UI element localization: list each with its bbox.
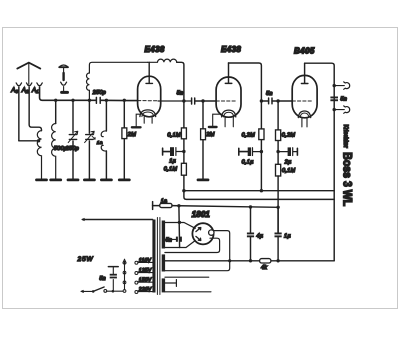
- svg-text:B405: B405: [294, 47, 315, 56]
- svg-text:220V: 220V: [138, 287, 152, 293]
- svg-text:25W: 25W: [77, 256, 94, 263]
- junction: [54, 99, 57, 102]
- ground L1: [37, 178, 47, 181]
- anode electrodes: [196, 228, 201, 232]
- svg-text:1a: 1a: [161, 198, 168, 204]
- junction coil tap: [37, 139, 40, 142]
- terminal A2: [26, 83, 31, 86]
- resistor 4k: [260, 259, 271, 263]
- capacitor 0,1u: [239, 148, 248, 155]
- svg-text:250p: 250p: [65, 146, 79, 152]
- capacitor 5n (4): [165, 238, 176, 240]
- junction: [88, 99, 91, 102]
- V1 grid line dashes: [138, 100, 158, 102]
- V1 anode top cap: [146, 62, 153, 83]
- ground 500p: [68, 178, 78, 181]
- svg-text:250p: 250p: [92, 90, 106, 96]
- svg-text:4k: 4k: [261, 265, 267, 271]
- terminal A3: [16, 83, 21, 86]
- series capacitor 250p: [96, 97, 100, 103]
- svg-text:A2: A2: [21, 87, 29, 94]
- mains switch: [81, 290, 93, 292]
- svg-text:0,1M: 0,1M: [164, 167, 178, 173]
- ground L2: [51, 178, 61, 181]
- secondary seg3 bar: [162, 278, 165, 292]
- mains line top: [82, 219, 152, 221]
- wire V1 to coupling: [158, 100, 192, 102]
- secondary seg2 bar: [162, 254, 165, 271]
- resistor 0,2M grid V3: [277, 101, 279, 164]
- seg3 bottom lead: [165, 291, 211, 293]
- mains fuse terminal: [152, 202, 154, 210]
- V3 anode wire to output: [305, 63, 335, 261]
- ground hooks: [101, 178, 111, 181]
- wire A3 tap to coil: [19, 140, 38, 142]
- capacitor 2u: [278, 151, 287, 153]
- svg-text:2µ: 2µ: [284, 159, 292, 165]
- svg-text:0,2M: 0,2M: [282, 133, 296, 139]
- svg-text:4µ: 4µ: [256, 233, 263, 239]
- svg-text:A3: A3: [10, 87, 18, 94]
- tap 110V: [135, 261, 138, 264]
- tap 220V: [135, 291, 138, 294]
- svg-text:110V: 110V: [139, 258, 152, 264]
- V2 filament: [222, 110, 236, 117]
- wire bus to L2: [55, 100, 57, 123]
- wave switch hooks: [105, 100, 107, 131]
- tube V1 E438 envelope: [138, 76, 161, 117]
- secondary coil L2: [52, 124, 56, 179]
- antenna coil L1: [37, 131, 41, 179]
- V3 grid dashes: [292, 100, 312, 102]
- svg-text:E438: E438: [145, 45, 165, 54]
- seg3 centre tap: [165, 280, 177, 287]
- speaker jack bottom: [333, 108, 336, 111]
- svg-text:2M: 2M: [205, 132, 215, 138]
- wire bus to C 250p var: [88, 100, 90, 178]
- svg-text:5n: 5n: [99, 276, 106, 282]
- svg-text:0,1M: 0,1M: [282, 168, 296, 174]
- svg-text:Boss 3 WL: Boss 3 WL: [341, 152, 353, 206]
- svg-text:150V: 150V: [139, 278, 152, 284]
- svg-text:5n: 5n: [166, 238, 173, 244]
- terminal A1: [37, 83, 42, 86]
- secondary HV bar: [162, 221, 165, 249]
- voltage selector: [124, 262, 126, 290]
- svg-text:1801: 1801: [192, 210, 211, 219]
- antenna: [17, 63, 40, 85]
- capacitor 5n (1): [192, 98, 195, 104]
- svg-text:E438: E438: [221, 45, 241, 54]
- fuse 1a: [153, 205, 160, 207]
- rectifier 1801 bulb: [192, 223, 213, 244]
- svg-text:5n: 5n: [266, 91, 273, 97]
- V1 cathode to chassis: [136, 114, 140, 127]
- svg-text:1a: 1a: [97, 140, 103, 146]
- tube V2 E438 envelope: [216, 77, 241, 117]
- svg-text:A1: A1: [31, 87, 39, 94]
- junction grid leak V2: [201, 99, 204, 102]
- HV bottom funnel: [165, 241, 195, 248]
- ground 250p: [84, 178, 94, 181]
- resistor 0,2M anode V2: [260, 101, 262, 191]
- feedback coil L3: [86, 62, 147, 100]
- svg-text:0,1µ: 0,1µ: [242, 159, 254, 165]
- speaker jack top: [333, 84, 336, 87]
- svg-text:5n: 5n: [177, 91, 184, 97]
- junction: [71, 99, 74, 102]
- V3 anode top cap: [301, 63, 308, 83]
- capacitor 1u (2): [277, 207, 279, 260]
- resistor 0,1M (3): [276, 164, 281, 176]
- capacitor 5n (2): [269, 98, 272, 104]
- transformer core: [157, 218, 160, 295]
- HT bus H2: [184, 191, 334, 200]
- V3 filament: [298, 111, 310, 118]
- HV top funnel: [165, 223, 195, 229]
- tube V3 B405 envelope: [292, 75, 317, 117]
- variable capacitor 250p: [85, 131, 95, 142]
- ground 2M (2): [198, 178, 208, 181]
- tap 125V: [135, 272, 138, 275]
- wire bus to C 500p: [72, 100, 74, 178]
- filament wire upper: [165, 231, 230, 271]
- junction choke to grid line: [182, 99, 185, 102]
- ground 2M: [119, 178, 129, 181]
- svg-text:Krischker: Krischker: [342, 125, 349, 149]
- transformer primary bar: [152, 220, 155, 293]
- filament wire lower: [165, 238, 220, 252]
- V2 anode wire to right: [229, 63, 262, 101]
- anode choke: [148, 59, 177, 62]
- svg-text:0,2M: 0,2M: [242, 132, 256, 138]
- capacitor 5n (3) across output: [330, 97, 338, 99]
- resistor 0,1M (2): [183, 152, 185, 191]
- V2 grid dashes: [216, 100, 236, 102]
- HT bus H1: [184, 190, 334, 192]
- V2 cathode to chassis: [213, 114, 222, 126]
- V1 filament: [140, 110, 156, 117]
- HV feed vertical: [178, 206, 181, 248]
- svg-text:2M: 2M: [127, 132, 137, 138]
- grid leak V2 2M: [202, 101, 204, 179]
- svg-text:0,1M: 0,1M: [167, 133, 181, 139]
- variable capacitor 500p: [68, 131, 78, 142]
- svg-text:5n: 5n: [340, 97, 347, 103]
- svg-text:1µ: 1µ: [169, 159, 176, 165]
- capacitor 5n (5): [108, 266, 118, 268]
- B+ bottom bus: [165, 260, 334, 262]
- seg3 top lead: [165, 276, 209, 278]
- tap 150V: [135, 281, 138, 284]
- svg-text:125V: 125V: [139, 268, 152, 274]
- resistor 0,1M anode V1: [183, 101, 185, 150]
- svg-text:1µ: 1µ: [284, 233, 291, 239]
- grid leak R 2M: [123, 100, 125, 178]
- V2 anode top cap: [225, 63, 232, 83]
- capacitor 4u: [250, 207, 252, 261]
- fuse line to right: [172, 206, 278, 208]
- earth terminal: [59, 65, 68, 92]
- capacitor 1u: [163, 148, 170, 155]
